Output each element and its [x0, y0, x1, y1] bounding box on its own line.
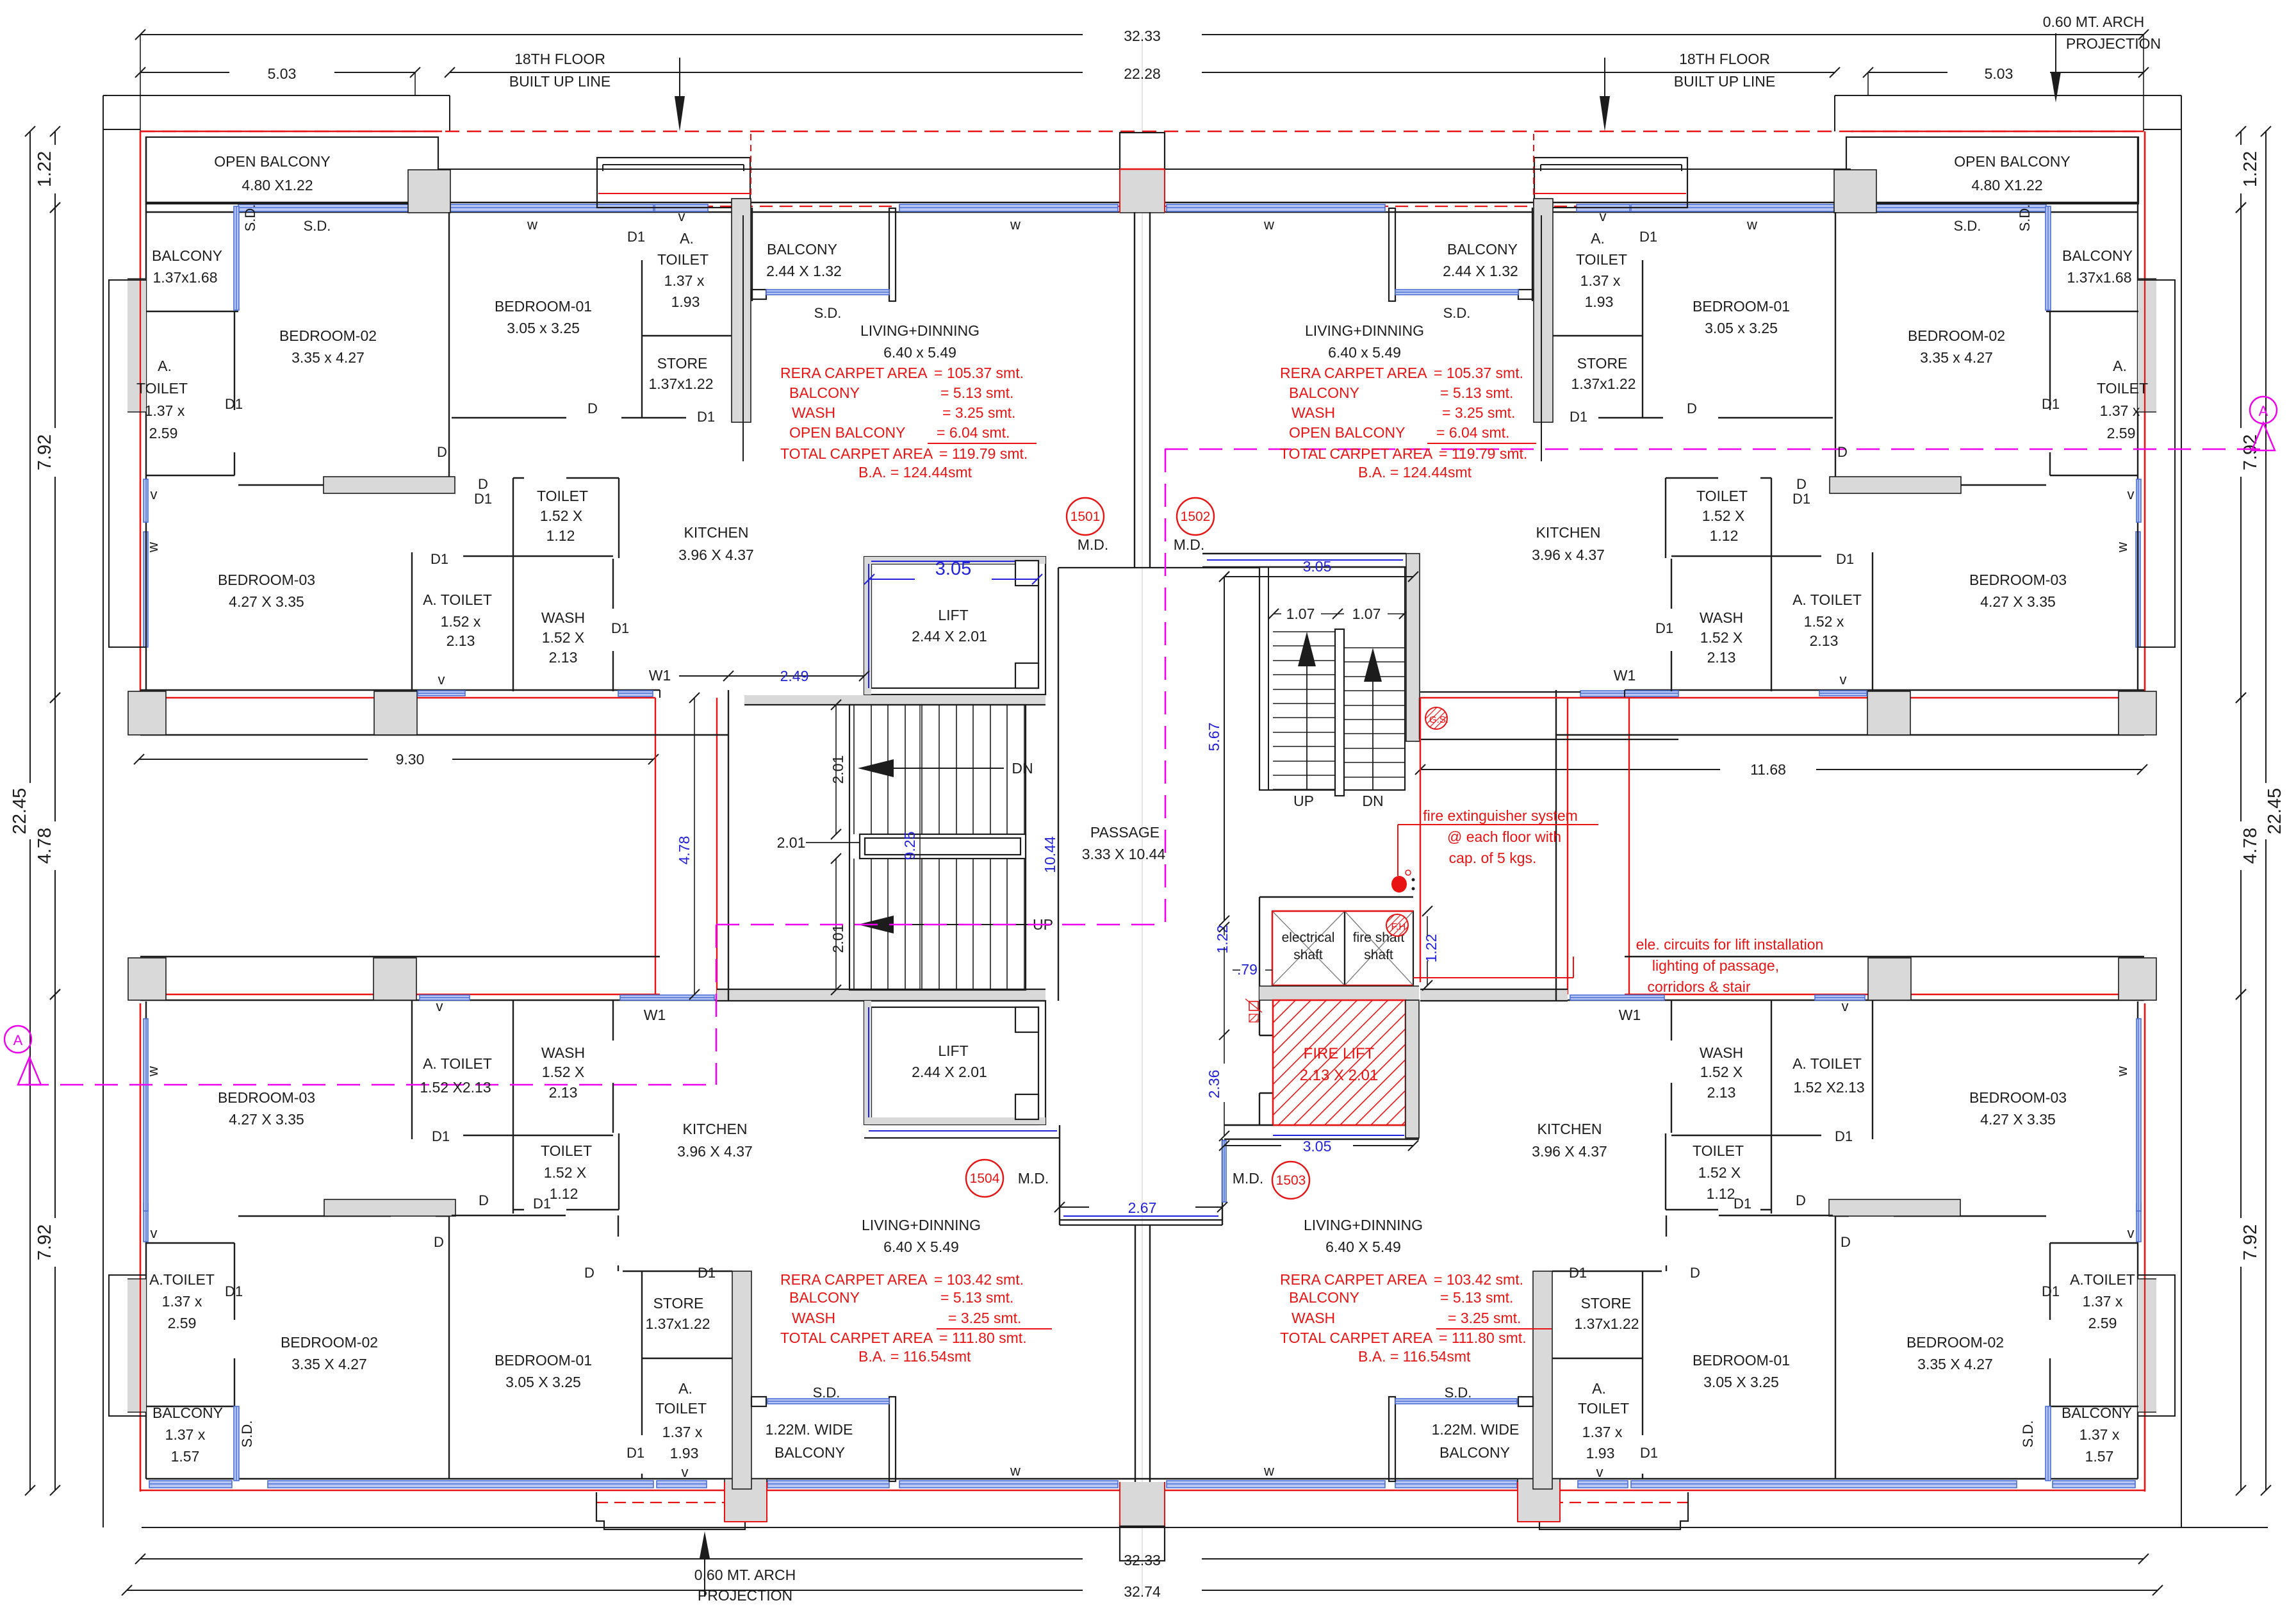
svg-text:S.D.: S.D.: [242, 204, 258, 232]
wall bedroom-02 bottom 1501: [238, 484, 391, 486]
svg-text:FIRE LIFT: FIRE LIFT: [1304, 1045, 1375, 1062]
svg-text:22.45: 22.45: [2265, 788, 2285, 835]
bottom dimension line 32.33: [140, 1558, 1083, 1560]
svg-text:1.22: 1.22: [2240, 151, 2261, 187]
svg-text:= 103.42 smt.: = 103.42 smt.: [934, 1271, 1024, 1288]
svg-text:1.12: 1.12: [546, 527, 575, 544]
svg-text:1.37 x: 1.37 x: [162, 1293, 202, 1310]
svg-text:1.37 x: 1.37 x: [2079, 1426, 2120, 1443]
column left wall lower: [127, 1279, 146, 1412]
wall a-toilet bottom 1501: [146, 475, 234, 476]
svg-text:4.80 X1.22: 4.80 X1.22: [242, 177, 313, 193]
svg-text:1.52 X: 1.52 X: [1698, 1164, 1741, 1181]
svg-text:D1: D1: [533, 1196, 551, 1212]
svg-text:TOILET: TOILET: [541, 1142, 592, 1159]
svg-text:B.A. = 124.44smt: B.A. = 124.44smt: [1358, 464, 1472, 481]
svg-text:D1: D1: [1569, 1265, 1587, 1281]
wall store cluster 1504: [1642, 1271, 1643, 1435]
red fire line vertical: [1420, 698, 1421, 982]
wall bedroom-01 bottom 1501: [1718, 417, 1833, 418]
svg-text:= 3.25 smt.: = 3.25 smt.: [1442, 404, 1515, 421]
svg-text:STORE: STORE: [1581, 1295, 1632, 1312]
svg-text:1.22: 1.22: [35, 151, 55, 187]
svg-text:v: v: [1840, 671, 1847, 687]
svg-text:= 6.04 smt.: = 6.04 smt.: [937, 424, 1010, 441]
svg-text:1.52 X: 1.52 X: [542, 1064, 585, 1080]
svg-text:= 119.79 smt.: = 119.79 smt.: [939, 445, 1028, 462]
wall store right gray 1504: [1533, 1271, 1552, 1489]
svg-text:D1: D1: [474, 491, 492, 507]
wall slab gray bedroom-02 1501: [324, 477, 455, 493]
svg-text:S.D.: S.D.: [813, 1385, 840, 1401]
bottom center column: [1120, 1482, 1165, 1526]
svg-text:1.37 x: 1.37 x: [1580, 272, 1621, 289]
svg-text:1.07: 1.07: [1352, 605, 1381, 622]
svg-text:BEDROOM-03: BEDROOM-03: [1969, 1089, 2067, 1106]
lift top box: [864, 557, 1045, 695]
svg-text:2.01: 2.01: [777, 834, 806, 851]
svg-text:KITCHEN: KITCHEN: [684, 524, 749, 541]
svg-text:4.27 X 3.35: 4.27 X 3.35: [229, 593, 304, 610]
svg-text:LIVING+DINNING: LIVING+DINNING: [860, 322, 980, 339]
svg-text:D1: D1: [1640, 1445, 1658, 1461]
svg-text:M.D.: M.D.: [1078, 536, 1109, 553]
svg-text:PROJECTION: PROJECTION: [2066, 35, 2161, 52]
sliding door living balcony 1501: [766, 290, 889, 295]
svg-text:2.44 X 2.01: 2.44 X 2.01: [912, 628, 987, 645]
svg-text:2.13 X 2.01: 2.13 X 2.01: [1300, 1067, 1379, 1084]
svg-text:3.05 x 3.25: 3.05 x 3.25: [507, 320, 580, 336]
wall balcony bottom 1501: [146, 311, 238, 312]
svg-text:= 3.25 smt.: = 3.25 smt.: [942, 404, 1015, 421]
svg-text:D: D: [1837, 444, 1848, 460]
svg-text:D1: D1: [1835, 1128, 1853, 1144]
shaft red outline: [1272, 910, 1413, 912]
svg-text:v: v: [678, 208, 685, 224]
wall bedroom-01 top 1504: [452, 1215, 566, 1216]
svg-text:= 5.13 smt.: = 5.13 smt.: [940, 384, 1013, 401]
svg-text:B.A. = 116.54smt: B.A. = 116.54smt: [858, 1348, 971, 1365]
top-left dimension 5.03: [140, 72, 229, 73]
left outer wall: [145, 137, 147, 690]
svg-text:G.S.: G.S.: [1429, 714, 1448, 725]
svg-text:1.93: 1.93: [671, 293, 700, 310]
sliding door wide balcony 1504: [767, 1399, 889, 1404]
svg-text:1.52 X: 1.52 X: [542, 629, 585, 646]
svg-text:TOTAL CARPET AREA: TOTAL CARPET AREA: [1280, 1329, 1433, 1346]
svg-text:1.37x1.22: 1.37x1.22: [1571, 375, 1636, 392]
right outer wall: [2137, 137, 2138, 690]
svg-text:BALCONY: BALCONY: [2062, 247, 2133, 264]
balcony wide left stub 1504: [751, 1397, 766, 1406]
svg-text:A.: A.: [1592, 1380, 1606, 1397]
svg-text:D1: D1: [1734, 1196, 1751, 1212]
svg-text:2.01: 2.01: [830, 925, 846, 953]
staircase right dims 1.07: [1274, 613, 1281, 614]
svg-text:2.59: 2.59: [168, 1315, 197, 1331]
dimension 3.05 stair right: [1224, 576, 1413, 577]
wall bedroom-02 right 1504: [448, 1216, 450, 1479]
svg-text:2.67: 2.67: [1128, 1199, 1157, 1216]
svg-text:5.03: 5.03: [1985, 65, 2013, 82]
fire shaft: [1345, 911, 1413, 985]
svg-text:WASH: WASH: [1291, 404, 1335, 421]
svg-text:= 3.25 smt.: = 3.25 smt.: [1448, 1310, 1521, 1326]
svg-text:v: v: [1600, 208, 1607, 224]
left dimension chain: [29, 131, 31, 783]
svg-text:BEDROOM-03: BEDROOM-03: [218, 1089, 315, 1106]
wall toilet cluster mid 1501: [411, 552, 413, 691]
svg-text:D1: D1: [225, 396, 243, 412]
svg-text:D: D: [478, 476, 488, 492]
svg-text:OPEN BALCONY: OPEN BALCONY: [1289, 424, 1406, 441]
arch projection box top right: [1534, 158, 1687, 208]
svg-text:22.28: 22.28: [1124, 65, 1161, 82]
svg-text:w: w: [527, 217, 537, 233]
flat number 1501: [1067, 498, 1104, 535]
vent window recess wall 1501: [418, 691, 465, 696]
staircase right box: [1202, 553, 1406, 554]
svg-text:3.96 X 4.37: 3.96 X 4.37: [677, 1143, 753, 1160]
svg-text:S.D.: S.D.: [239, 1420, 255, 1448]
svg-text:v: v: [2128, 1225, 2135, 1241]
svg-text:B.A. = 116.54smt: B.A. = 116.54smt: [1358, 1348, 1471, 1365]
fire door symbols: [1249, 1001, 1258, 1010]
top dimension line 32.33: [140, 34, 1083, 35]
top-right dimension 5.03: [1868, 72, 1947, 73]
svg-text:OPEN BALCONY: OPEN BALCONY: [789, 424, 906, 441]
svg-text:3.05 x 3.25: 3.05 x 3.25: [1705, 320, 1778, 336]
svg-text:7.92: 7.92: [2240, 1224, 2261, 1260]
svg-text:2.59: 2.59: [149, 425, 178, 441]
wall toilet cluster 1504: [411, 1000, 413, 1139]
svg-text:WASH: WASH: [541, 609, 585, 626]
svg-text:1.37 x: 1.37 x: [2100, 402, 2140, 419]
svg-text:shaft: shaft: [1293, 948, 1323, 962]
svg-text:A.: A.: [1591, 230, 1605, 247]
svg-text:BEDROOM-02: BEDROOM-02: [281, 1334, 378, 1351]
svg-text:1.37x1.22: 1.37x1.22: [648, 375, 713, 392]
svg-text:W1: W1: [644, 1007, 666, 1023]
fire corridor walls right: [1420, 691, 1580, 693]
fire lift: [1273, 1000, 1406, 1125]
svg-text:18TH FLOOR: 18TH FLOOR: [1679, 51, 1770, 67]
vent window left wall 1504: [143, 1203, 148, 1242]
svg-text:5.03: 5.03: [268, 65, 297, 82]
svg-text:electrical: electrical: [1282, 930, 1335, 945]
svg-text:D1: D1: [2042, 1283, 2060, 1299]
svg-text:1.22M. WIDE: 1.22M. WIDE: [1432, 1421, 1520, 1438]
center top box: [1120, 133, 1165, 169]
wall balcony top 1504: [146, 1406, 234, 1407]
wall lobby left stub 1501: [1541, 215, 1542, 461]
red dashed wall line top middle: [442, 206, 1841, 207]
red dashed under bottom arch projections: [596, 1502, 751, 1503]
svg-text:S.D.: S.D.: [2020, 1420, 2036, 1448]
svg-text:0.60 MT. ARCH: 0.60 MT. ARCH: [2043, 13, 2145, 30]
dim 4.78 blue recess: [694, 698, 695, 994]
balcony living right wall 1501: [889, 208, 896, 301]
dimension 11.68: [1420, 769, 1720, 770]
svg-text:STORE: STORE: [1577, 355, 1628, 372]
svg-text:2.01: 2.01: [830, 755, 846, 784]
svg-text:WASH: WASH: [541, 1044, 585, 1061]
passage lower U: [1059, 1125, 1060, 1225]
lift top door stubs: [1015, 663, 1038, 688]
svg-text:RERA CARPET AREA: RERA CARPET AREA: [780, 365, 928, 381]
window left wall 1504: [143, 1019, 148, 1211]
svg-text:KITCHEN: KITCHEN: [683, 1121, 748, 1137]
lift bottom door stubs: [1015, 1007, 1038, 1032]
wall bedroom-01 right 1501: [1642, 260, 1643, 418]
svg-text:3.35 x 4.27: 3.35 x 4.27: [1920, 349, 1993, 366]
svg-text:4.78: 4.78: [2240, 828, 2261, 864]
svg-text:M.D.: M.D.: [1174, 536, 1205, 553]
recess walls left lower: [140, 956, 660, 957]
wall lobby left stub 1501: [742, 215, 744, 461]
svg-text:BEDROOM-01: BEDROOM-01: [1693, 1352, 1790, 1369]
svg-text:= 3.25 smt.: = 3.25 smt.: [948, 1310, 1021, 1326]
svg-text:2.13: 2.13: [1810, 632, 1839, 649]
stair dim 9.25: [919, 705, 921, 990]
svg-text:4.27 X 3.35: 4.27 X 3.35: [229, 1111, 304, 1128]
svg-text:A.: A.: [680, 230, 694, 247]
wall a-toilet right 1501: [234, 311, 235, 410]
dimension 3.05 lift top: [869, 579, 915, 580]
stair top wall band: [744, 695, 1045, 705]
svg-text:DN: DN: [1012, 760, 1033, 777]
svg-text:1.37 x: 1.37 x: [165, 1426, 206, 1443]
wall bedroom-02 right 1504: [1835, 1216, 1836, 1479]
svg-text:= 5.13 smt.: = 5.13 smt.: [1440, 1289, 1513, 1306]
svg-text:TOILET: TOILET: [537, 488, 588, 504]
svg-text:7.92: 7.92: [35, 1224, 55, 1260]
balcony wide right wall 1504: [1389, 1397, 1395, 1481]
apartment 1504 walls: [143, 1000, 896, 1489]
svg-text:D1: D1: [1639, 229, 1657, 245]
svg-text:3.96 x 4.37: 3.96 x 4.37: [1532, 547, 1605, 563]
svg-text:1.22: 1.22: [1423, 934, 1439, 963]
svg-text:v: v: [1596, 1464, 1603, 1480]
bottom right projection step: [1534, 1492, 1688, 1529]
svg-text:v: v: [438, 671, 445, 687]
svg-text:9.30: 9.30: [396, 751, 425, 768]
wall bedroom-02 top 1504: [238, 1215, 391, 1217]
arch projection box top left: [597, 158, 750, 208]
svg-text:TOTAL CARPET AREA: TOTAL CARPET AREA: [1280, 445, 1433, 462]
svg-text:D1: D1: [430, 551, 448, 567]
dimension 9.30: [139, 759, 368, 760]
svg-text:LIVING+DINNING: LIVING+DINNING: [1305, 322, 1424, 339]
bottom wall window band segments: [149, 1481, 232, 1488]
svg-text:TOILET: TOILET: [1696, 488, 1748, 504]
wall a-toilet top 1504: [146, 1242, 234, 1244]
svg-text:1.52 X: 1.52 X: [1702, 507, 1745, 524]
svg-text:1.37x1.22: 1.37x1.22: [645, 1315, 710, 1332]
svg-text:TOILET: TOILET: [136, 380, 188, 397]
dimension 3.05 fire lift: [1224, 1145, 1281, 1146]
bottom projection line: [142, 1527, 2268, 1528]
svg-text:11.68: 11.68: [1750, 761, 1786, 778]
svg-text:1.07: 1.07: [1286, 605, 1315, 622]
svg-text:2.59: 2.59: [2088, 1315, 2117, 1331]
column top wall right: [1834, 170, 1876, 213]
svg-text:D: D: [584, 1265, 594, 1281]
passage dim 2.67: [1060, 1206, 1089, 1208]
svg-text:1.52 X: 1.52 X: [540, 507, 583, 524]
svg-text:TOILET: TOILET: [655, 1400, 707, 1417]
svg-text:S.D.: S.D.: [814, 305, 842, 321]
recess walls left: [140, 689, 660, 691]
wall a-toilet top 1504: [2050, 1242, 2138, 1244]
svg-text:1.52 X: 1.52 X: [1700, 629, 1743, 646]
svg-text:1503: 1503: [1276, 1173, 1306, 1188]
svg-text:w: w: [1010, 1463, 1021, 1479]
svg-text:D1: D1: [1836, 551, 1854, 567]
svg-text:w: w: [1263, 217, 1274, 233]
svg-text:BALCONY: BALCONY: [789, 1289, 860, 1306]
svg-text:BEDROOM-03: BEDROOM-03: [1969, 572, 2067, 588]
svg-text:= 105.37 smt.: = 105.37 smt.: [934, 365, 1024, 381]
svg-text:= 105.37 smt.: = 105.37 smt.: [1434, 365, 1523, 381]
dim extension verticals top: [140, 35, 141, 131]
staircase right wall gray: [1406, 554, 1420, 741]
wall bedroom-02 top 1504: [1894, 1215, 2046, 1217]
svg-text:WASH: WASH: [1291, 1310, 1335, 1326]
wall bedroom-02 right 1501: [1835, 212, 1836, 485]
open balcony top right: [1846, 137, 2138, 204]
svg-text:2.44 X 1.32: 2.44 X 1.32: [766, 263, 842, 279]
fire lift bottom: [1224, 1124, 1273, 1126]
svg-text:1.37x1.68: 1.37x1.68: [152, 269, 217, 286]
sliding door balcony 1504: [234, 1406, 239, 1481]
top dimension line 22.28: [450, 72, 1083, 73]
svg-text:v: v: [151, 1225, 158, 1241]
bottom center projection box: [1120, 1526, 1165, 1561]
center axis line: [1142, 35, 1143, 1595]
svg-text:2.44 X 1.32: 2.44 X 1.32: [1443, 263, 1518, 279]
svg-text:D1: D1: [697, 409, 715, 425]
staircase landing left: [860, 834, 1026, 859]
svg-text:A.TOILET: A.TOILET: [2070, 1271, 2135, 1288]
svg-text:3.05: 3.05: [935, 559, 971, 579]
wall a-toilet right 1504: [234, 1243, 235, 1320]
svg-text:v: v: [436, 998, 443, 1014]
svg-text:1.52 X2.13: 1.52 X2.13: [1793, 1079, 1864, 1096]
column bottom wall left: [725, 1479, 767, 1522]
svg-text:w: w: [1746, 217, 1757, 233]
svg-text:B.A. = 124.44smt: B.A. = 124.44smt: [858, 464, 972, 481]
svg-text:BALCONY: BALCONY: [789, 384, 860, 401]
svg-text:1.57: 1.57: [2085, 1448, 2114, 1465]
vent window recess wall 1501: [1819, 691, 1867, 696]
left outer step outline lower: [109, 1275, 146, 1416]
svg-text:7.92: 7.92: [2240, 434, 2261, 470]
svg-text:3.96 X 4.37: 3.96 X 4.37: [678, 547, 754, 563]
svg-text:1.37x1.22: 1.37x1.22: [1574, 1315, 1639, 1332]
svg-text:PROJECTION: PROJECTION: [698, 1587, 792, 1602]
sliding door wide balcony 1504: [1395, 1399, 1517, 1404]
dimension 5.67: [1224, 577, 1225, 921]
window left wall 1504: [2136, 1019, 2141, 1211]
column right wall upper: [2138, 279, 2156, 412]
right dimension chain: [2265, 131, 2267, 783]
svg-text:BEDROOM-01: BEDROOM-01: [495, 298, 592, 315]
svg-text:A. TOILET: A. TOILET: [1792, 1055, 1862, 1072]
svg-text:2.59: 2.59: [2107, 425, 2136, 441]
vent window left wall 1501: [2136, 479, 2141, 522]
electrical shaft: [1272, 911, 1345, 985]
svg-text:KITCHEN: KITCHEN: [1536, 524, 1601, 541]
staircase left: [849, 705, 1026, 990]
svg-text:BALCONY: BALCONY: [767, 241, 837, 258]
svg-text:1.52 x: 1.52 x: [1804, 613, 1844, 630]
wall a-toilet right 1501: [2049, 311, 2051, 410]
svg-text:w: w: [145, 1066, 161, 1077]
svg-text:OPEN BALCONY: OPEN BALCONY: [1954, 153, 2070, 170]
svg-text:3.33 X 10.44: 3.33 X 10.44: [1082, 846, 1166, 862]
apartment 1501 walls: [143, 199, 896, 1000]
wall balcony bottom 1501: [2046, 311, 2138, 312]
balcony wide left stub 1504: [1518, 1397, 1533, 1406]
svg-text:1.93: 1.93: [1585, 293, 1614, 310]
svg-text:S.D.: S.D.: [304, 218, 331, 234]
top main wall: [146, 202, 2138, 203]
svg-text:1.12: 1.12: [550, 1185, 578, 1202]
svg-text:w: w: [1263, 1463, 1274, 1479]
svg-text:BALCONY: BALCONY: [1439, 1444, 1510, 1461]
svg-text:A. TOILET: A. TOILET: [423, 1055, 492, 1072]
svg-text:D1: D1: [432, 1128, 450, 1144]
vent window left wall 1501: [143, 479, 148, 522]
svg-text:WASH: WASH: [792, 404, 835, 421]
balcony living right wall 1501: [1389, 208, 1395, 301]
balcony wide right wall 1504: [889, 1397, 896, 1481]
wall below fire lift: [1224, 1124, 1406, 1126]
svg-text:2.49: 2.49: [780, 668, 809, 684]
svg-text:TOILET: TOILET: [657, 251, 709, 268]
flat number 1503: [1272, 1162, 1309, 1199]
svg-text:w: w: [145, 542, 161, 553]
bottom left projection step: [596, 1492, 751, 1529]
wall toilet cluster mid 1501: [1872, 552, 1873, 691]
wall store right gray 1504: [732, 1271, 751, 1489]
svg-text:D: D: [1690, 1265, 1700, 1281]
svg-text:BEDROOM-02: BEDROOM-02: [1906, 1334, 2004, 1351]
svg-text:5.67: 5.67: [1206, 723, 1222, 752]
svg-text:D1: D1: [1655, 620, 1673, 636]
passage walls: [1134, 212, 1135, 567]
svg-text:A. TOILET: A. TOILET: [1792, 591, 1862, 608]
balcony living left stub 1501: [751, 290, 766, 299]
vent window left wall 1504: [2136, 1203, 2141, 1242]
svg-text:6.40 x 5.49: 6.40 x 5.49: [883, 344, 956, 361]
svg-text:1.37 x: 1.37 x: [145, 402, 185, 419]
svg-text:UP: UP: [1293, 793, 1314, 809]
recess walls right: [1625, 689, 2144, 691]
sliding door balcony 1501: [234, 206, 239, 310]
wall a-toilet/store divider 1501: [1553, 335, 1643, 336]
wall a-toilet right 1504: [2049, 1243, 2051, 1320]
dimension 2.49 lobby: [728, 675, 864, 677]
svg-text:1502: 1502: [1181, 509, 1211, 524]
svg-text:2.13: 2.13: [549, 649, 578, 666]
svg-text:W1: W1: [1614, 667, 1636, 684]
svg-text:BALCONY: BALCONY: [775, 1444, 845, 1461]
svg-text:D: D: [1687, 400, 1697, 416]
svg-text:1.22M. WIDE: 1.22M. WIDE: [766, 1421, 853, 1438]
svg-text:1.37 x: 1.37 x: [662, 1424, 703, 1440]
